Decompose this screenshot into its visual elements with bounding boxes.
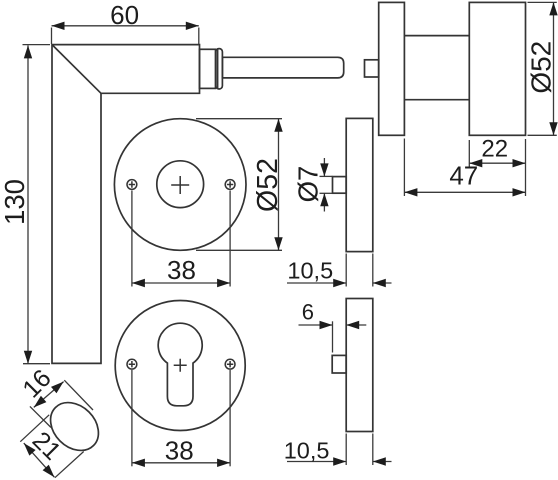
arrowhead 130 top bbox=[24, 45, 32, 58]
dim 130 ext bottom bbox=[23, 363, 50, 365]
dim 16 ext lower bbox=[30, 406, 51, 427]
arrowhead 21 lower bbox=[43, 465, 55, 478]
rosette 1 hub circle bbox=[157, 161, 204, 208]
rosette 1 side bar bbox=[346, 118, 373, 251]
dim 10,5 r2 line left bbox=[287, 461, 346, 463]
rosette 1 screw left bbox=[127, 180, 137, 190]
dim 10,5 r2 ext right bbox=[372, 434, 374, 466]
svg-text:Ø52: Ø52 bbox=[525, 41, 556, 94]
dim 22 ext left bbox=[468, 140, 470, 167]
dim d52 rosette ext top bbox=[196, 118, 282, 120]
arrowhead d52r1 top bbox=[274, 119, 282, 132]
dim 38 r1 ext right bbox=[229, 191, 231, 287]
grip cross-section ellipse bbox=[41, 393, 108, 460]
rosette 2 side bar bbox=[346, 299, 373, 432]
arrowhead 10,5r1 left bbox=[333, 279, 346, 287]
arrowhead d7 down bbox=[320, 163, 328, 176]
dim 130 line bbox=[27, 45, 29, 363]
rosette 1 screw right bbox=[225, 180, 235, 190]
spindle shaft bbox=[222, 57, 343, 78]
dim 130 ext top bbox=[23, 44, 51, 46]
arrowhead 47 left bbox=[404, 188, 417, 196]
svg-text:16: 16 bbox=[17, 364, 56, 403]
rosette 2 side bushing square bbox=[332, 355, 346, 373]
dim d7 tick bottom bbox=[320, 192, 333, 194]
dim 10,5 r1 line right bbox=[373, 282, 392, 284]
arrowhead d52 knob bottom bbox=[549, 122, 557, 135]
dim 38 r2 line bbox=[132, 462, 230, 464]
svg-text:38: 38 bbox=[165, 436, 194, 466]
dim 38 r1 line bbox=[132, 282, 230, 284]
arrowhead 21 upper bbox=[24, 443, 36, 456]
dim 60 ext left bbox=[51, 28, 53, 45]
arrowhead 6 left bbox=[320, 321, 333, 329]
arrowhead 47 right bbox=[513, 188, 526, 196]
svg-text:130: 130 bbox=[0, 179, 30, 225]
dim 21 ext lower bbox=[55, 452, 84, 478]
rosette 2 screw left bbox=[127, 359, 137, 369]
dim 16 line bbox=[34, 382, 64, 408]
dim 6 ext line bbox=[332, 321, 334, 352]
rosette 2 centre cross bbox=[174, 359, 187, 372]
dim 16 ext upper bbox=[64, 380, 93, 410]
knob neck bottom line bbox=[404, 99, 469, 101]
svg-text:10,5: 10,5 bbox=[287, 258, 333, 284]
svg-text:38: 38 bbox=[167, 255, 196, 285]
arrowhead 60 right bbox=[186, 22, 199, 30]
rosette 1 centre cross bbox=[171, 176, 189, 194]
arrowhead d52r1 bottom bbox=[274, 237, 282, 250]
arrowhead 60 left bbox=[52, 22, 65, 30]
svg-text:47: 47 bbox=[449, 161, 478, 191]
euro cylinder keyhole bbox=[158, 323, 202, 406]
arrowhead 38r1 left bbox=[132, 279, 145, 287]
dim d52 rosette ext bottom bbox=[196, 249, 282, 251]
arrowhead 10,5r1 right bbox=[373, 279, 386, 287]
dim 21 line bbox=[24, 443, 55, 477]
svg-text:10,5: 10,5 bbox=[284, 438, 330, 464]
dim 10,5 r2 line right bbox=[373, 461, 392, 463]
dim 60 line bbox=[52, 25, 199, 27]
dim 10,5 r2 ext left bbox=[345, 434, 347, 466]
arrowhead 10,5r2 left bbox=[333, 457, 346, 465]
dim 10,5 r1 line left bbox=[287, 282, 346, 284]
dim 47 ext left bbox=[403, 139, 405, 197]
dim d7 tick top bbox=[320, 175, 333, 177]
dim 38 r2 ext left bbox=[131, 370, 133, 466]
svg-text:6: 6 bbox=[302, 299, 314, 324]
arrowhead 38r2 left bbox=[132, 459, 145, 467]
dim 10,5 r1 ext left bbox=[345, 254, 347, 287]
knob neck top line bbox=[404, 35, 469, 37]
dim d52 rosette line bbox=[278, 119, 280, 251]
arrowhead 38r2 right bbox=[217, 459, 230, 467]
arrowhead 130 bottom bbox=[24, 351, 32, 364]
arrowhead 10,5r2 right bbox=[373, 457, 386, 465]
dim 10,5 r1 ext right bbox=[372, 254, 374, 287]
dim d52 knob line bbox=[553, 2, 555, 135]
rosette 2 screw right bbox=[225, 359, 235, 369]
dim 60 ext right bbox=[198, 28, 200, 45]
lever handle body bbox=[52, 45, 200, 364]
dim 6 arrow line left bbox=[299, 324, 333, 326]
rosette 2 outer circle bbox=[115, 301, 245, 431]
dim d7 arrow line bottom bbox=[323, 193, 325, 211]
knob cylinder bbox=[469, 2, 525, 135]
arrowhead 16 upper bbox=[51, 382, 64, 394]
dim 38 r1 ext left bbox=[131, 191, 133, 287]
arrowhead d7 up bbox=[320, 193, 328, 206]
svg-text:22: 22 bbox=[481, 136, 508, 163]
arrowhead 6 right bbox=[346, 321, 359, 329]
handle neck bbox=[200, 49, 216, 88]
knob rosette side view bbox=[379, 2, 405, 135]
rosette 1 side bushing square bbox=[333, 177, 347, 194]
collar inner line bbox=[217, 49, 219, 88]
arrowhead 16 lower bbox=[34, 396, 47, 408]
arrowhead 22 right bbox=[513, 159, 526, 167]
dim 22 47 ext right bbox=[525, 139, 527, 196]
arrowhead d52 knob top bbox=[549, 2, 557, 15]
dim d52 knob ext top bbox=[528, 1, 557, 3]
svg-text:21: 21 bbox=[27, 426, 66, 465]
dim d7 arrow line top bbox=[323, 158, 325, 176]
handle collar ring bbox=[216, 49, 223, 89]
dim d52 knob ext bottom bbox=[528, 134, 557, 136]
arrowhead 22 left bbox=[469, 159, 482, 167]
dim 21 ext upper bbox=[20, 415, 49, 442]
dim 22 line bbox=[469, 162, 525, 164]
rosette 1 outer circle bbox=[114, 119, 246, 251]
svg-text:Ø52: Ø52 bbox=[252, 158, 284, 212]
handle miter edge bbox=[52, 45, 101, 94]
arrowhead 38r1 right bbox=[217, 279, 230, 287]
dim 6 arrow line right bbox=[346, 324, 366, 326]
svg-text:60: 60 bbox=[110, 0, 139, 30]
svg-text:Ø7: Ø7 bbox=[293, 166, 324, 203]
dim 47 line bbox=[404, 191, 525, 193]
spindle square end bbox=[365, 60, 379, 77]
dim 38 r2 ext right bbox=[229, 370, 231, 466]
